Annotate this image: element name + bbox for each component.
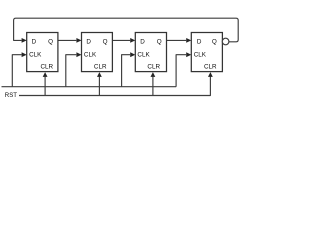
svg-text:Q: Q bbox=[157, 38, 162, 45]
svg-text:Q: Q bbox=[212, 38, 217, 45]
arrow into CLR4 bbox=[208, 72, 213, 77]
flip-flop U2 box bbox=[82, 33, 113, 72]
wire RST line bbox=[19, 77, 210, 96]
inverting bubble on Q4 output bbox=[222, 38, 229, 45]
arrow into D4 bbox=[186, 38, 191, 43]
flip-flop U1 box bbox=[27, 33, 58, 72]
svg-text:D: D bbox=[32, 38, 37, 45]
wire Q3 to D4 bbox=[167, 39, 187, 41]
svg-text:CLR: CLR bbox=[204, 64, 217, 71]
svg-text:D: D bbox=[140, 38, 145, 45]
wire CLR drop FF1 bbox=[44, 77, 46, 96]
wire CLK tap FF2 bbox=[66, 55, 77, 87]
arrow into CLK3 bbox=[130, 52, 135, 57]
arrow into CLR2 bbox=[97, 72, 102, 77]
arrow into CLK1 bbox=[22, 52, 27, 57]
arrow into D1 bbox=[22, 38, 27, 43]
svg-text:Q: Q bbox=[48, 38, 53, 45]
arrow into CLK2 bbox=[76, 52, 81, 57]
svg-text:CLK: CLK bbox=[84, 52, 97, 59]
svg-text:CLR: CLR bbox=[41, 64, 54, 71]
svg-text:D: D bbox=[86, 38, 91, 45]
svg-text:RST: RST bbox=[5, 92, 17, 99]
wire CLK tap FF1 bbox=[12, 55, 21, 87]
svg-text:CLK: CLK bbox=[194, 52, 207, 59]
flip-flop U4 box bbox=[191, 33, 222, 72]
svg-text:CLK: CLK bbox=[137, 52, 150, 59]
svg-text:CLR: CLR bbox=[147, 64, 160, 71]
arrow into CLK4 bbox=[186, 52, 191, 57]
svg-text:CLK: CLK bbox=[29, 52, 42, 59]
wire CLK bus bbox=[2, 86, 177, 88]
wire CLR drop FF3 bbox=[152, 77, 154, 96]
flip-flop U3 box bbox=[135, 33, 166, 72]
arrow into D3 bbox=[130, 38, 135, 43]
svg-text:CLR: CLR bbox=[94, 64, 107, 71]
wire CLR drop FF2 bbox=[98, 77, 100, 96]
arrow into D2 bbox=[76, 38, 81, 43]
wire Q1 to D2 bbox=[58, 39, 76, 41]
wire feedback from Q4 bubble over top to D1 bbox=[14, 18, 239, 42]
wire CLK tap FF3 bbox=[122, 55, 131, 87]
arrow into CLR3 bbox=[151, 72, 156, 77]
wire Q2 to D3 bbox=[112, 39, 130, 41]
arrow into CLR1 bbox=[43, 72, 48, 77]
wire CLK tap FF4 bbox=[176, 55, 186, 87]
svg-text:Q: Q bbox=[103, 38, 108, 45]
svg-text:D: D bbox=[197, 38, 202, 45]
